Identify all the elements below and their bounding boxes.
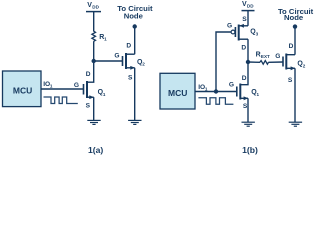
wire R1 to node <box>93 41 95 61</box>
svg-text:DD: DD <box>247 3 254 8</box>
svg-text:G: G <box>114 53 119 60</box>
wire node to Q1 drain (right) <box>240 62 248 85</box>
svg-text:G: G <box>275 53 280 60</box>
ground (Q2 right) <box>289 122 302 126</box>
wire Q2 drain to circuit node (right) <box>294 27 296 55</box>
svg-text:EXT: EXT <box>261 54 270 59</box>
svg-text:R: R <box>256 51 261 58</box>
transistor Q1 (NMOS, right) <box>229 81 260 122</box>
svg-text:1: 1 <box>103 92 106 97</box>
svg-text:Node: Node <box>124 12 144 21</box>
transistor Q1 (NMOS, left) <box>74 81 106 120</box>
svg-text:D: D <box>242 75 247 82</box>
svg-text:1: 1 <box>257 92 260 97</box>
resistor R1 <box>92 31 107 41</box>
svg-text:D: D <box>289 43 294 50</box>
transistor Q2 (NMOS, left) <box>114 42 145 81</box>
svg-text:1(b): 1(b) <box>242 145 258 155</box>
net label IO1 (right) <box>198 84 208 92</box>
svg-text:S: S <box>128 74 133 81</box>
svg-text:D: D <box>126 42 131 49</box>
junction on IO1 line (right) <box>214 89 218 93</box>
wire Q2 source to ground (right) <box>294 68 296 122</box>
gate wire MCU IO1 to Q1 (left) <box>41 88 84 90</box>
gate wire Q3 to IO1 junction <box>216 32 231 92</box>
power rail VDD (left) <box>86 2 101 12</box>
svg-text:1(a): 1(a) <box>88 145 103 155</box>
wire Q2 drain to circuit node (left) <box>134 27 136 55</box>
svg-text:G: G <box>74 82 79 89</box>
svg-text:S: S <box>242 16 247 23</box>
wire Q3 drain to node <box>247 39 249 62</box>
svg-text:2: 2 <box>303 63 306 68</box>
svg-text:MCU: MCU <box>168 88 187 98</box>
svg-text:MCU: MCU <box>13 86 32 96</box>
wire Q2 source to ground (left) <box>134 68 136 120</box>
svg-text:S: S <box>288 77 293 84</box>
MCU box (right) <box>160 73 195 109</box>
ground (Q1 right) <box>242 122 255 126</box>
transistor Q3 (PMOS, right) <box>227 22 259 51</box>
svg-text:S: S <box>86 103 91 110</box>
svg-text:G: G <box>229 81 234 88</box>
svg-text:DD: DD <box>92 4 99 9</box>
node To Circuit Node (left) <box>117 4 153 29</box>
svg-text:1: 1 <box>205 87 208 92</box>
svg-text:1: 1 <box>104 37 107 42</box>
svg-text:D: D <box>86 71 91 78</box>
MCU box (left) <box>3 71 42 107</box>
svg-text:G: G <box>227 22 232 29</box>
svg-text:Node: Node <box>284 13 304 22</box>
wire node to REXT <box>248 61 260 63</box>
wire node to Q1 drain <box>87 61 94 82</box>
wire REXT to Q2 gate <box>268 61 283 63</box>
waveform (right) <box>198 98 233 105</box>
gate wire MCU IO1 to Q1 (right) <box>195 91 237 93</box>
wire VDD to Q3 source <box>247 11 249 26</box>
svg-text:3: 3 <box>256 31 259 36</box>
wire VDD to R1 <box>93 12 95 32</box>
net label IO1 (left) <box>43 81 53 89</box>
ground (Q2 left) <box>128 120 141 124</box>
ground (Q1 left) <box>87 120 100 124</box>
resistor REXT <box>256 51 270 64</box>
node junction (Q3 drain / Q1 drain / REXT) <box>246 60 250 64</box>
node To Circuit Node (right) <box>278 7 314 29</box>
svg-text:D: D <box>241 44 246 51</box>
power rail VDD (right) <box>242 1 255 11</box>
node junction (R1 / Q1 drain / Q2 gate) <box>92 59 96 63</box>
svg-text:S: S <box>243 103 248 110</box>
waveform (left) <box>44 97 78 104</box>
svg-text:2: 2 <box>142 62 145 67</box>
transistor Q2 (NMOS, right) <box>275 43 305 84</box>
wire node to Q2 gate <box>94 60 123 62</box>
svg-text:1: 1 <box>50 84 53 89</box>
